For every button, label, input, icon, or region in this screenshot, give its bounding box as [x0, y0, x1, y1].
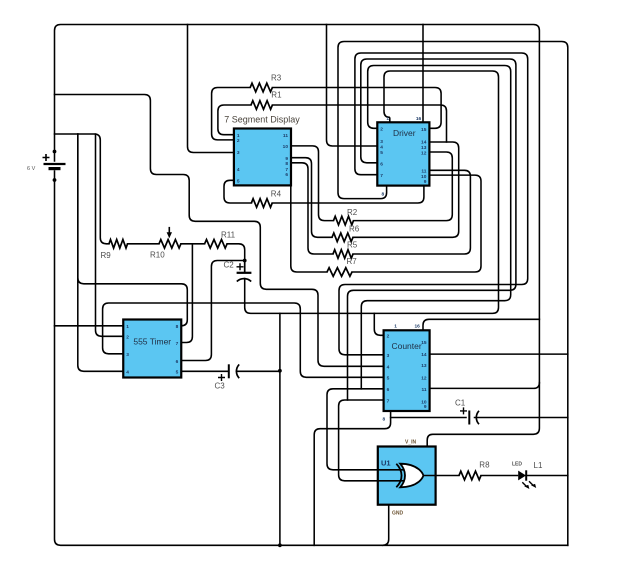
wire R2 to driver pin12 — [354, 152, 453, 221]
wire counter pin8 net to C1 — [391, 417, 466, 419]
wire counter pin16 to +V rail — [423, 319, 539, 330]
svg-text:9: 9 — [285, 156, 288, 162]
svg-text:10: 10 — [421, 174, 427, 180]
svg-text:R7: R7 — [347, 257, 358, 266]
capacitor C2 — [224, 259, 252, 282]
svg-text:11: 11 — [283, 133, 288, 139]
wire top bus branch to driver pin16 — [422, 25, 424, 123]
svg-text:8: 8 — [383, 416, 386, 422]
svg-text:2: 2 — [387, 334, 390, 340]
svg-text:5: 5 — [387, 375, 390, 381]
wire R1 to driver pin14 line — [272, 105, 446, 142]
svg-text:6: 6 — [285, 172, 288, 178]
svg-text:C2: C2 — [224, 261, 235, 270]
junction dot ground bus — [278, 543, 282, 547]
svg-text:6: 6 — [387, 387, 390, 393]
capacitor C1 — [455, 399, 479, 425]
svg-text:LED: LED — [512, 462, 522, 468]
svg-text:12: 12 — [421, 150, 427, 156]
resistor R2 — [334, 216, 354, 225]
svg-text:Driver: Driver — [393, 128, 416, 138]
wire R9-R10 row — [128, 243, 160, 245]
resistor R8 — [459, 471, 481, 480]
svg-text:8: 8 — [285, 161, 288, 167]
wire R11 to C2 junction — [227, 244, 245, 261]
wire battery+ top bus to V_IN — [55, 25, 540, 447]
resistor R9 — [109, 240, 128, 249]
svg-text:6: 6 — [176, 359, 179, 365]
resistor R3 — [250, 83, 272, 92]
svg-text:R8: R8 — [479, 460, 490, 469]
svg-text:R10: R10 — [150, 251, 165, 260]
svg-text:R6: R6 — [349, 225, 360, 234]
svg-text:R1: R1 — [271, 90, 282, 99]
wire battery 134-line to R9 — [55, 134, 110, 244]
svg-text:2: 2 — [126, 335, 129, 341]
wire top bus branch to driver pin4 — [327, 25, 378, 147]
svg-text:V_IN: V_IN — [405, 440, 417, 446]
resistor R11 — [205, 240, 228, 249]
wire counter pin7 to U1 in2 — [339, 400, 404, 481]
wire counter pin8 to ground bus — [314, 411, 390, 545]
wire R10R11 junction to 555 pin7 — [181, 244, 192, 343]
svg-text:L1: L1 — [534, 461, 543, 470]
svg-text:C1: C1 — [455, 399, 466, 408]
wire C1 to right vertical — [475, 417, 568, 419]
wire LED to right vertical — [526, 475, 568, 477]
svg-text:3: 3 — [387, 353, 390, 359]
potentiometer R10 wiper arrow — [168, 227, 170, 234]
resistor R6 — [332, 233, 353, 242]
wire R7 to driver pin10 — [352, 175, 481, 272]
wire 134-line drop to 555 pin2 — [96, 134, 124, 336]
svg-text:4: 4 — [380, 145, 383, 151]
resistor R1 — [251, 101, 272, 110]
svg-text:GND: GND — [392, 511, 404, 517]
svg-text:3: 3 — [380, 139, 383, 145]
wire R8 to LED — [481, 475, 518, 477]
svg-text:16: 16 — [414, 324, 420, 330]
svg-text:R4: R4 — [271, 190, 282, 199]
svg-text:13: 13 — [421, 363, 427, 369]
svg-text:11: 11 — [422, 387, 427, 393]
svg-text:14: 14 — [421, 352, 427, 358]
svg-text:11: 11 — [421, 169, 426, 175]
svg-text:1: 1 — [126, 324, 129, 330]
resistor R4 — [251, 199, 272, 208]
svg-text:12: 12 — [421, 376, 427, 382]
wire 134-line drop to 555 pin4 — [78, 134, 124, 371]
IC Counter — [383, 324, 430, 423]
svg-text:4: 4 — [126, 370, 129, 376]
wire R10-R11 row — [181, 243, 205, 245]
wire counter pin6 to U1 in1 — [327, 389, 403, 470]
svg-text:3: 3 — [126, 352, 129, 358]
wire R5 to driver pin11 — [353, 170, 470, 254]
wire 7seg pin5 to R4 — [224, 180, 251, 203]
IC Driver — [377, 116, 429, 198]
wire counter pin14 to right vertical — [430, 353, 568, 355]
wire 7seg pin1 to R1 — [218, 105, 251, 135]
svg-text:R3: R3 — [271, 74, 282, 83]
wire top bus branch to 7seg pin3 — [188, 25, 234, 153]
svg-text:2: 2 — [380, 127, 383, 133]
svg-text:555 Timer: 555 Timer — [133, 337, 171, 347]
svg-text:3: 3 — [237, 150, 240, 156]
wire battery- ground bus — [55, 171, 568, 545]
svg-text:R9: R9 — [101, 251, 112, 260]
resistor R10 — [159, 240, 181, 249]
wire driver pin8 loop right vertical — [338, 42, 568, 546]
wire driver pin14 to R6 — [353, 142, 459, 237]
IC 7 Segment Display — [234, 129, 291, 186]
wire 555 pin5 to C3 — [181, 370, 228, 372]
svg-text:7: 7 — [380, 173, 383, 179]
wire C3 to junction — [237, 370, 280, 372]
resistor R7 — [327, 268, 352, 277]
wire U1 GND to ground bus — [383, 505, 389, 546]
XOR gate U1 — [378, 440, 436, 517]
wire U1 out to R8 — [423, 475, 459, 477]
svg-text:4: 4 — [237, 167, 240, 173]
wire counter pin11 to +V rail — [430, 383, 540, 389]
svg-text:9: 9 — [424, 404, 427, 410]
wire battery to counter pin4 staircase — [55, 95, 384, 367]
svg-text:7 Segment Display: 7 Segment Display — [224, 115, 300, 125]
wire driver pin2 to counter pin6 — [361, 66, 510, 389]
svg-text:1: 1 — [237, 133, 240, 139]
wire 134-line drop to 555 pin8 — [78, 134, 188, 326]
wire driver pin6 to counter pin7 — [348, 59, 516, 400]
wire C2/C3 vertical to ground bus — [279, 313, 281, 545]
wire R3 to driver pin15 — [272, 88, 441, 129]
wire 7seg pin2 to R3 — [212, 88, 251, 140]
battery 6V — [27, 150, 66, 182]
wire C2 to driver pin1 net — [245, 71, 499, 313]
svg-text:R11: R11 — [221, 231, 236, 240]
wire driver pin7 to counter pin3 — [339, 53, 528, 355]
svg-text:5: 5 — [380, 150, 383, 156]
svg-text:7: 7 — [176, 341, 179, 347]
svg-text:16: 16 — [416, 116, 422, 122]
svg-text:7: 7 — [285, 167, 288, 173]
wire 7seg pin8 to R5 — [291, 163, 333, 254]
svg-text:U1: U1 — [381, 459, 391, 468]
svg-text:8: 8 — [176, 324, 179, 330]
svg-text:8: 8 — [382, 191, 385, 197]
svg-text:15: 15 — [421, 127, 427, 133]
wire counter pin2 riser — [374, 313, 383, 335]
wire 7seg pin10 to R2 — [291, 146, 334, 221]
wire 7seg pin6 to R7 — [291, 185, 327, 272]
wire R4 to driver pin9 — [272, 186, 424, 203]
wire 555 pin3 output to counter pin5 — [103, 303, 384, 377]
svg-text:14: 14 — [421, 139, 427, 145]
svg-text:5: 5 — [237, 179, 240, 185]
svg-text:7: 7 — [387, 398, 390, 404]
resistor R5 — [333, 250, 353, 259]
svg-text:9: 9 — [424, 179, 427, 185]
capacitor C3 — [215, 364, 282, 390]
svg-text:4: 4 — [387, 365, 390, 371]
svg-text:6 V: 6 V — [27, 166, 36, 172]
IC 555 Timer — [123, 320, 181, 378]
svg-text:1: 1 — [394, 324, 397, 330]
svg-text:2: 2 — [237, 138, 240, 144]
svg-text:15: 15 — [421, 340, 427, 346]
svg-text:13: 13 — [421, 145, 427, 151]
svg-text:R5: R5 — [347, 241, 358, 250]
wire battery to 555 pin1 — [55, 325, 124, 327]
LED D1 — [512, 462, 536, 490]
wire 7seg pin9 to R6 — [291, 158, 332, 238]
wire 555 pin6 to C2 junction — [181, 261, 245, 361]
svg-text:Counter: Counter — [391, 341, 421, 351]
svg-text:5: 5 — [176, 370, 179, 376]
svg-text:1: 1 — [386, 116, 389, 122]
svg-text:10: 10 — [283, 144, 289, 150]
svg-text:6: 6 — [380, 161, 383, 167]
svg-text:R2: R2 — [347, 208, 358, 217]
svg-text:C3: C3 — [215, 382, 226, 391]
